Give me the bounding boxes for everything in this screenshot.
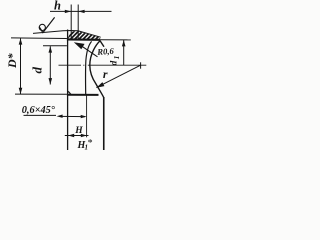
svg-text:d: d bbox=[30, 67, 45, 74]
arrow d bottom bbox=[49, 78, 53, 84]
dimension line d bbox=[49, 46, 51, 84]
arrow d1 bbox=[122, 40, 126, 46]
extension line d bbox=[43, 45, 67, 47]
arrowhead R0,6 bbox=[74, 42, 85, 49]
centerline (axis) dash-dot bbox=[59, 64, 82, 66]
extension line h left bbox=[70, 5, 72, 40]
top extension line right (to d1) bbox=[100, 39, 131, 41]
outer cavity profile arc radius r bbox=[90, 41, 104, 98]
extension line h right bbox=[77, 5, 79, 40]
arrow H right bbox=[81, 134, 87, 137]
surface finish symbol bbox=[39, 24, 45, 30]
svg-text:D*: D* bbox=[5, 52, 19, 69]
dimension line d1 bbox=[123, 40, 125, 65]
arrow right bbox=[81, 115, 87, 118]
dimension line h bbox=[50, 10, 112, 12]
svg-text:r: r bbox=[103, 67, 108, 81]
bottom silhouette thick bbox=[67, 94, 99, 96]
svg-text:R0,6: R0,6 bbox=[96, 46, 115, 57]
top silhouette thick bbox=[67, 38, 100, 40]
svg-text:H: H bbox=[74, 126, 83, 136]
arrow d top bbox=[49, 46, 53, 52]
svg-text:*: * bbox=[88, 138, 93, 149]
leader R0,6 bbox=[82, 46, 98, 57]
collar top silhouette (sloped thin roof line) bbox=[33, 31, 101, 38]
chamfer slant at cavity mouth (45 deg) bbox=[100, 40, 104, 46]
arrowhead on arc for r bbox=[96, 82, 104, 88]
label d1 bbox=[109, 56, 120, 66]
chamfer 0,6x45 at bottom-left corner bbox=[68, 91, 71, 94]
label H1* bbox=[77, 138, 93, 152]
svg-text:0,6×45°: 0,6×45° bbox=[22, 105, 56, 116]
dimension line H bbox=[65, 135, 89, 137]
center mark cross of radius r bbox=[140, 62, 142, 68]
inner cavity wall curve bbox=[85, 41, 91, 94]
svg-text:d: d bbox=[109, 61, 119, 66]
arrow h left bbox=[65, 10, 71, 13]
left face vertical bbox=[67, 30, 69, 151]
leader continuation bbox=[61, 115, 85, 117]
svg-text:1: 1 bbox=[112, 56, 121, 60]
arrow h right bbox=[78, 10, 84, 13]
arrow left on leader bbox=[57, 115, 63, 118]
arrow D bottom bbox=[19, 88, 23, 94]
underline leader of 0,6x45 bbox=[24, 114, 57, 116]
leader line radius r bbox=[96, 65, 140, 87]
bottom silhouette / extension line left bbox=[15, 93, 67, 95]
svg-text:h: h bbox=[54, 0, 61, 12]
right body edge vertical bbox=[103, 97, 105, 150]
arrow H left bbox=[68, 134, 74, 137]
extension line from cavity bottom (H) bbox=[86, 95, 88, 138]
dimension line D bbox=[20, 38, 22, 94]
top silhouette / extension line left bbox=[11, 37, 67, 40]
arrow D top bbox=[19, 38, 23, 44]
